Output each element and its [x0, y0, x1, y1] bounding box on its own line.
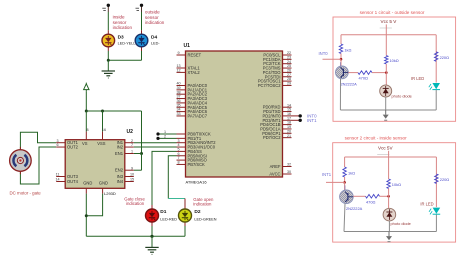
U2 pin 15 IN4: [125, 181, 134, 183]
wire - EN2 stub link: [134, 169, 142, 171]
U1 pin 38 PA2/ADC2: [177, 93, 186, 95]
svg-text:INT1: INT1: [307, 118, 317, 123]
resistor R 10k: [385, 35, 387, 56]
U1 pin 5 PB4/SS: [177, 150, 186, 152]
svg-text:DC motor - gate: DC motor - gate: [10, 191, 42, 196]
wire - power rail to VS VSS EN1: [86, 110, 141, 112]
U1 pin 24 PC2/TCK: [283, 63, 292, 65]
svg-text:7: 7: [131, 143, 133, 147]
U1 pin 7 PB6/MISO: [177, 159, 186, 161]
junction dot GND legs: [85, 214, 88, 217]
junction dot power/VS: [85, 110, 88, 113]
svg-text:33: 33: [176, 112, 180, 116]
U2 pin 6 OUT2: [56, 146, 65, 148]
transistor Q 2N2222A body: [336, 66, 349, 79]
U1 pin 21 PD7/OC2: [283, 137, 292, 139]
U2 pin 3 OUT1: [56, 142, 65, 144]
U1 pin 34 PA6/ADC6: [177, 111, 186, 113]
wire - down to U2 VS: [85, 111, 87, 132]
wire - D3 cathode down: [107, 51, 109, 60]
svg-text:D3: D3: [118, 34, 124, 40]
wire - PD2 INT0 net: [292, 115, 301, 117]
svg-text:VSS: VSS: [97, 141, 105, 146]
node dot PB1: [156, 137, 159, 140]
wire teal segment to D2: [168, 198, 185, 200]
LED D3 body: [102, 34, 115, 47]
U1 pin 3 PB2/AIN0/INT2: [177, 142, 186, 144]
transistor Q 2N2222A body: [340, 190, 354, 204]
svg-text:IN2: IN2: [117, 145, 124, 150]
junction dot power/VSS: [101, 110, 104, 113]
svg-text:U2: U2: [127, 129, 134, 135]
svg-text:21: 21: [287, 134, 291, 138]
U1 pin 40 PA0/ADC0: [177, 85, 186, 87]
junction dot INT/collector: [343, 181, 346, 184]
junction dot base/10k: [387, 195, 390, 198]
wire Vcc stem: [388, 151, 390, 157]
sensor box border: [333, 143, 456, 242]
svg-text:LED-: LED-: [151, 41, 160, 45]
svg-text:2N2222A: 2N2222A: [341, 82, 358, 87]
LED D1 body: [146, 209, 159, 222]
U2 pin 8 VS: [85, 132, 87, 140]
resistor R 470: [348, 72, 358, 74]
U1 pin 30 AVCC: [283, 173, 292, 175]
wire collector: [340, 59, 342, 66]
wire collector pin: [344, 185, 346, 190]
wire - D2 cathode to rail: [184, 226, 186, 236]
svg-text:220Ω: 220Ω: [440, 177, 449, 182]
U1 pin 12 XTAL2: [177, 71, 186, 73]
svg-text:10kΩ: 10kΩ: [392, 182, 401, 187]
U1 pin 39 PA1/ADC1: [177, 89, 186, 91]
terminal dot above D4: [140, 4, 143, 7]
U1 pin 14 PD0/RXD: [283, 106, 292, 108]
motor M1 pins: [19, 147, 21, 150]
wire - down to U2 VSS: [102, 111, 104, 132]
svg-text:EN2: EN2: [115, 168, 124, 173]
U2 pin 14 OUT4: [56, 181, 65, 183]
wire - D4 cathode down to ground rail: [141, 51, 143, 60]
svg-text:VS: VS: [82, 141, 88, 146]
U2 pin 7 IN2: [125, 146, 134, 148]
svg-text:GND: GND: [83, 181, 92, 186]
wire - U1 PB4 to LED D1: [152, 151, 177, 205]
svg-text:IR LED: IR LED: [420, 202, 433, 207]
svg-text:29: 29: [287, 82, 291, 86]
wire - PD3 INT1 net: [292, 119, 301, 121]
U1 pin 2 PB1/T1: [177, 137, 186, 139]
svg-text:AVCC: AVCC: [269, 172, 280, 177]
U1 pin 37 PA3/ADC3: [177, 98, 186, 100]
motor M1 wiring bottom: [20, 147, 56, 184]
svg-text:PB7/SCK: PB7/SCK: [188, 162, 206, 167]
U1 pin 26 PC4/TDO: [283, 71, 292, 73]
svg-text:OUT2: OUT2: [67, 145, 79, 150]
node dot INT1: [299, 119, 302, 122]
svg-text:XTAL2: XTAL2: [188, 70, 201, 75]
wire - LED ground rail: [108, 59, 141, 61]
junction dot at D3 cathode: [107, 59, 110, 62]
svg-text:sensor 2 circuit - inside sens: sensor 2 circuit - inside sensor: [345, 136, 408, 141]
ground symbol below D3/D4: [107, 60, 109, 71]
U1 pin 25 PC3/TMS: [283, 67, 292, 69]
wire - PB1 net stub: [158, 137, 177, 139]
U2 GND pins: [85, 188, 87, 193]
svg-text:LED-GREEN: LED-GREEN: [194, 218, 216, 222]
wire Vcc stem: [385, 24, 387, 34]
U1 pin 29 PC7/TOSC2: [283, 84, 292, 86]
svg-text:10kΩ: 10kΩ: [390, 58, 399, 63]
resistor R 1k: [340, 35, 342, 44]
U1 pin 1 PB0/T0/XCK: [177, 133, 186, 135]
junction dot ground rail: [150, 235, 153, 238]
photo diode body: [380, 85, 392, 97]
svg-text:D2: D2: [194, 209, 200, 215]
svg-text:30: 30: [287, 170, 291, 174]
wire - U1 PB5 to LED D2: [168, 156, 176, 199]
svg-text:indication: indication: [193, 202, 212, 207]
wire collector pin: [340, 62, 342, 66]
wire - U2 IN1 to U1 PB2: [134, 142, 177, 144]
svg-text:16: 16: [102, 128, 106, 132]
U2 pin 16 VSS: [102, 132, 104, 140]
U1 pin 22 PC0/SCL: [283, 54, 292, 56]
motor M1 wiring top: [20, 132, 56, 150]
junction dot EN1: [140, 152, 143, 155]
wire - D1 cathode to rail: [151, 226, 153, 236]
svg-text:1: 1: [131, 150, 133, 154]
wire bottom rail: [344, 231, 436, 233]
terminal dot above D3: [107, 4, 110, 7]
svg-text:indication: indication: [145, 20, 165, 25]
svg-text:10: 10: [130, 173, 134, 177]
U1 pin 20 PD6/ICP1: [283, 132, 292, 134]
power terminal +V arrow: [84, 84, 89, 90]
node dot PB0: [156, 132, 159, 135]
wire top rail: [345, 156, 437, 158]
IC U1 ATMEGA16 body: [186, 51, 283, 177]
svg-text:INT0: INT0: [319, 51, 329, 56]
LED D4 body: [135, 34, 148, 47]
wire top rail: [341, 34, 436, 36]
U1 pin 32 AREF: [283, 166, 292, 168]
ground terminal: [388, 232, 390, 237]
wire emitter to rail: [339, 79, 341, 110]
svg-text:PC7/TOSC2: PC7/TOSC2: [258, 83, 281, 88]
U1 pin 36 PA4/ADC4: [177, 102, 186, 104]
svg-text:L293D: L293D: [104, 191, 116, 196]
U1 pin 17 PD3/INT1: [283, 119, 292, 121]
wire - U2 GND right leg: [86, 194, 102, 216]
U1 pin 15 PD1/TXD: [283, 111, 292, 113]
svg-text:470Ω: 470Ω: [359, 76, 368, 81]
svg-text:8: 8: [86, 128, 88, 132]
U1 pin 16 PD2/INT0: [283, 115, 292, 117]
LED D1 (red) pins: [151, 205, 153, 209]
wire collector: [344, 182, 346, 190]
svg-text:15: 15: [130, 178, 134, 182]
photo diode body: [383, 208, 396, 221]
LED D2 body: [179, 209, 192, 222]
wire - PB0 net stub: [158, 133, 177, 135]
motor M1 body: [10, 150, 32, 172]
svg-text:Vcc 5V: Vcc 5V: [378, 146, 393, 151]
svg-text:9: 9: [131, 166, 133, 170]
resistor R 1k: [344, 157, 346, 167]
svg-text:D1: D1: [160, 209, 166, 215]
U1 pin 27 PC5/TDI: [283, 76, 292, 78]
wire emitter to rail: [344, 204, 345, 232]
wire - U2 IN2 to U1 PB3: [134, 146, 177, 148]
U1 pin 13 XTAL1: [177, 67, 186, 69]
U2 pin 11 OUT3: [56, 176, 65, 178]
wire photo diode to bottom rail: [385, 97, 387, 110]
ground terminal: [385, 110, 387, 115]
U1 pin 35 PA5/ADC5: [177, 106, 186, 108]
U1 pin 18 PD4/OC1B: [283, 124, 292, 126]
wire - EN1 stub link: [134, 153, 142, 155]
LED D4 (blue) pins: [141, 30, 143, 34]
svg-text:INT1: INT1: [322, 172, 332, 177]
resistor R 470: [353, 195, 365, 197]
svg-text:14: 14: [55, 178, 59, 182]
LED D2 (green) pins: [184, 199, 186, 210]
svg-text:12: 12: [176, 69, 180, 73]
svg-text:OUT4: OUT4: [67, 179, 79, 184]
svg-text:Vcc 5 V: Vcc 5 V: [381, 19, 398, 24]
svg-text:AREF: AREF: [270, 164, 281, 169]
wire - D4 anode from terminal: [141, 7, 143, 12]
svg-text:EN1: EN1: [115, 151, 124, 156]
LED D3 (yellow) pins: [107, 30, 109, 34]
svg-text:32: 32: [287, 163, 291, 167]
wire - D3 anode from terminal: [107, 7, 109, 12]
wire to photo diode: [388, 196, 390, 208]
U2 pin 1 EN1: [125, 153, 134, 155]
svg-text:1kΩ: 1kΩ: [348, 171, 355, 176]
U2 pin 10 IN3: [125, 176, 134, 178]
svg-text:sensor 1 circuit - outside sen: sensor 1 circuit - outside sensor: [360, 10, 425, 15]
U1 pin 9 RESET: [177, 54, 186, 56]
svg-text:IR LED: IR LED: [411, 76, 424, 81]
sensor box border: [333, 17, 456, 121]
svg-text:8: 8: [177, 161, 179, 165]
ground symbol bottom: [151, 236, 153, 247]
wire - down to U2 EN1/EN2: [141, 111, 143, 154]
svg-text:1kΩ: 1kΩ: [344, 47, 351, 52]
U1 pin 8 PB7/SCK: [177, 163, 186, 165]
svg-text:U1: U1: [184, 43, 191, 49]
svg-text:PA7/ADC7: PA7/ADC7: [188, 113, 208, 118]
svg-text:9: 9: [177, 51, 179, 55]
U1 pin 6 PB5/MOSI: [177, 155, 186, 157]
svg-text:ATMEGA16: ATMEGA16: [186, 180, 208, 185]
wire - bottom ground rail: [86, 235, 185, 237]
junction dot base/10k: [385, 71, 388, 74]
svg-text:indication: indication: [113, 25, 133, 30]
svg-text:photo diode: photo diode: [392, 94, 412, 99]
svg-text:GND: GND: [99, 181, 108, 186]
svg-text:photo diode: photo diode: [391, 221, 411, 226]
svg-text:IN4: IN4: [117, 179, 124, 184]
resistor R 220: [435, 157, 437, 207]
svg-text:indication: indication: [126, 201, 145, 206]
U1 pin 28 PC6/TOSC1: [283, 80, 292, 82]
wire - U2 GND left leg: [85, 194, 87, 237]
svg-text:D4: D4: [151, 34, 157, 40]
wire INT input: [323, 58, 342, 60]
svg-text:PD7/OC2: PD7/OC2: [263, 135, 281, 140]
LED IR body: [433, 208, 441, 214]
svg-text:13: 13: [176, 64, 180, 68]
svg-text:LED-RED: LED-RED: [160, 218, 177, 222]
wire to photo diode: [385, 73, 387, 85]
svg-text:2N2222A: 2N2222A: [346, 206, 363, 211]
junction dot INT/collector: [340, 58, 343, 61]
wire IR LED to bottom rail: [435, 90, 437, 110]
wire IR LED to bottom rail: [435, 215, 437, 232]
IC U2 L293D body: [65, 140, 125, 189]
U1 pin 19 PD5/OC1A: [283, 128, 292, 130]
svg-text:6: 6: [56, 143, 58, 147]
svg-text:220Ω: 220Ω: [440, 55, 449, 60]
svg-text:11: 11: [56, 173, 60, 177]
resistor R 220: [435, 35, 437, 83]
wire bottom rail: [340, 109, 436, 111]
LED IR body: [432, 83, 440, 89]
U1 pin 33 PA7/ADC7: [177, 115, 186, 117]
U2 pin 2 IN1: [125, 142, 134, 144]
U1 pin 4 PB3/AIN1/OC0: [177, 146, 186, 148]
resistor R 10k: [388, 157, 390, 179]
U1 pin 23 PC1/SDA: [283, 58, 292, 60]
wire photo diode to bottom rail: [388, 221, 390, 232]
node dot INT0: [299, 114, 302, 117]
svg-text:RESET: RESET: [188, 53, 202, 58]
U2 pin 9 EN2: [125, 169, 134, 171]
svg-text:470Ω: 470Ω: [366, 199, 375, 204]
svg-text:2: 2: [164, 134, 166, 138]
wire INT input: [326, 181, 345, 183]
